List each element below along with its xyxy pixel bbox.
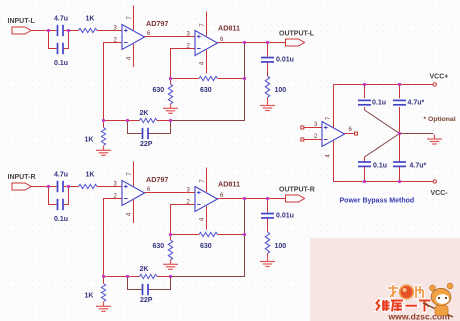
- svg-text:0.1u: 0.1u: [372, 99, 386, 106]
- svg-text:* Optional: * Optional: [424, 116, 456, 123]
- svg-text:VCC+: VCC+: [430, 74, 449, 81]
- svg-text:Power Bypass Method: Power Bypass Method: [340, 198, 415, 205]
- svg-text:4.7u*: 4.7u*: [410, 163, 427, 170]
- svg-text:22P: 22P: [140, 141, 153, 148]
- svg-text:0.1u: 0.1u: [373, 163, 387, 170]
- svg-text:4.7u: 4.7u: [54, 16, 68, 23]
- svg-text:2K: 2K: [140, 110, 149, 117]
- svg-text:VCC-: VCC-: [431, 190, 449, 197]
- svg-text:0.1u: 0.1u: [54, 60, 68, 67]
- svg-text:AD811: AD811: [218, 24, 240, 33]
- svg-text:0.01u: 0.01u: [276, 57, 294, 64]
- svg-text:OUTPUT-R: OUTPUT-R: [279, 187, 315, 194]
- svg-text:4.7u*: 4.7u*: [408, 99, 425, 106]
- svg-text:INPUT-L: INPUT-L: [8, 18, 36, 25]
- svg-text:1K: 1K: [85, 137, 94, 144]
- svg-text:AD797: AD797: [146, 19, 168, 28]
- svg-text:630: 630: [153, 87, 165, 94]
- svg-text:630: 630: [200, 87, 212, 94]
- svg-text:INPUT-R: INPUT-R: [8, 174, 36, 181]
- svg-text:OUTPUT-L: OUTPUT-L: [279, 31, 315, 38]
- svg-text:1K: 1K: [86, 16, 95, 23]
- svg-text:100: 100: [275, 87, 287, 94]
